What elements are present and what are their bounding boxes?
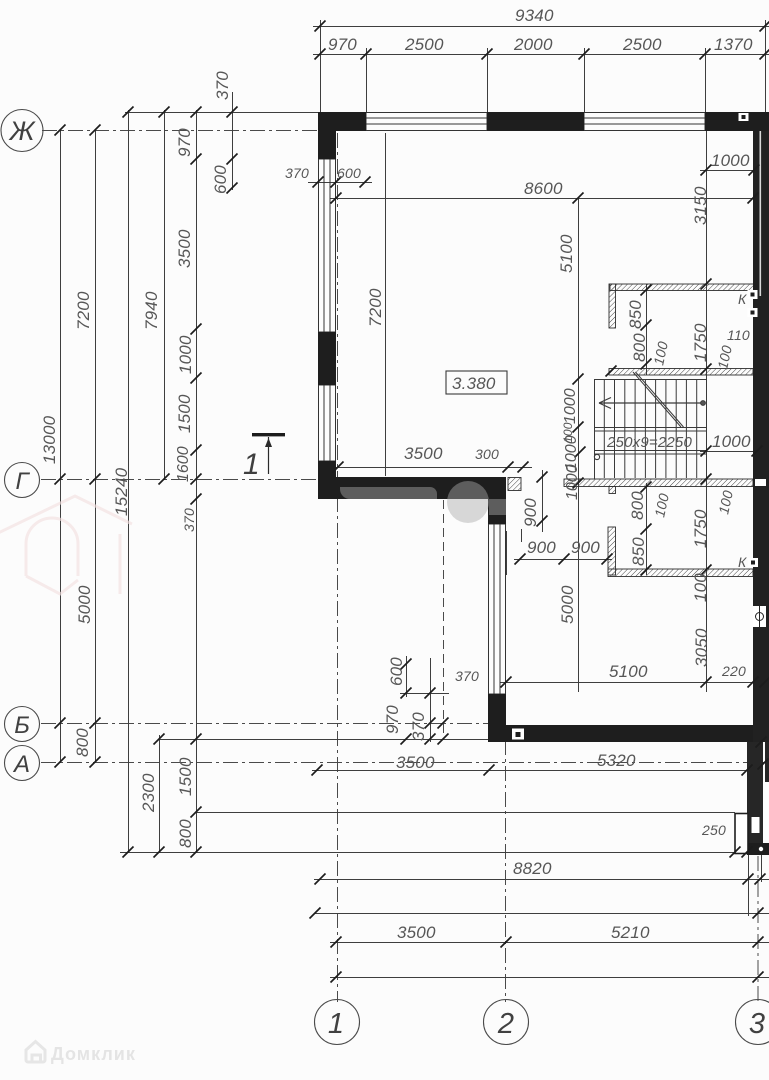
- dim line 900 vertical at door: [542, 470, 544, 532]
- lower-left jog dims: [406, 656, 408, 697]
- svg-text:2500: 2500: [404, 35, 444, 54]
- svg-text:1750: 1750: [691, 323, 710, 362]
- svg-text:5000: 5000: [558, 585, 577, 624]
- stair side edges: [594, 379, 596, 479]
- svg-text:250: 250: [701, 822, 726, 838]
- axis 1 circle: [315, 1000, 360, 1045]
- svg-text:900: 900: [527, 538, 556, 557]
- flight 2 double edge: [594, 450, 707, 452]
- svg-text:Домклик: Домклик: [51, 1044, 136, 1064]
- svg-text:2300: 2300: [139, 773, 158, 813]
- top dim row 9340: [313, 26, 769, 28]
- watermark house outline faint left (pink domclick logo): [0, 496, 132, 594]
- axis grid lines: [41, 131, 769, 1003]
- svg-text:800: 800: [630, 333, 649, 362]
- svg-text:370: 370: [285, 165, 309, 181]
- partition hatched P2: [609, 369, 753, 376]
- line y739: [159, 739, 488, 741]
- svg-text:1000: 1000: [564, 464, 581, 500]
- dim row 900/900: [514, 559, 612, 561]
- svg-text:5100: 5100: [557, 234, 576, 273]
- south wall: [488, 725, 753, 742]
- svg-text:5000: 5000: [75, 585, 94, 624]
- svg-text:К: К: [738, 291, 747, 307]
- dim row 3500/300 above Г wall: [330, 467, 532, 469]
- svg-text:8820: 8820: [513, 859, 552, 878]
- top wall corner block right: [705, 112, 769, 131]
- left vertical chain x232 370/600: [232, 92, 234, 190]
- svg-text:3050: 3050: [692, 628, 711, 667]
- svg-text:1600: 1600: [175, 446, 192, 482]
- svg-text:2500: 2500: [622, 35, 662, 54]
- axis Б horizontal: [41, 723, 492, 725]
- extension x706 top right: [706, 131, 708, 292]
- left vertical chain x196 subdims: [196, 110, 198, 852]
- svg-text:370: 370: [181, 508, 197, 532]
- svg-text:1: 1: [243, 448, 260, 481]
- dim row 5100/220: [500, 682, 769, 684]
- axis А circle: [5, 746, 40, 781]
- window top 1 (2500): [366, 113, 487, 131]
- svg-text:3500: 3500: [175, 229, 194, 268]
- left chain x159 2300: [159, 735, 161, 852]
- svg-text:100: 100: [691, 573, 710, 602]
- vertical dim line 7200 in room: [385, 133, 387, 476]
- svg-text:3.380: 3.380: [452, 374, 496, 393]
- svg-text:1000: 1000: [562, 388, 579, 424]
- svg-text:1000: 1000: [712, 432, 751, 451]
- dim row 370/600 under corner: [308, 182, 372, 184]
- left vertical chain x60 13000: [60, 130, 62, 762]
- small white socket on top wall: [739, 113, 749, 121]
- axis Б circle: [5, 707, 40, 742]
- west wall leg under corner: [318, 112, 336, 159]
- svg-text:3150: 3150: [691, 186, 710, 225]
- svg-text:3: 3: [749, 1008, 765, 1040]
- svg-text:Б: Б: [14, 712, 30, 739]
- west wall pier 1000: [318, 332, 336, 385]
- axis 1 vertical: [337, 133, 339, 1002]
- axis2 wall step block: [488, 499, 506, 524]
- svg-text:300: 300: [475, 446, 499, 462]
- svg-text:1370: 1370: [714, 35, 753, 54]
- partition hatched P4 lower: [608, 527, 753, 577]
- dim row 1000 top right: [700, 170, 762, 172]
- flight 2 start circle: [594, 454, 599, 459]
- axis2 wall lower block: [488, 694, 506, 726]
- svg-text:370: 370: [409, 712, 428, 741]
- svg-text:970: 970: [383, 705, 402, 734]
- axis 2 vertical: [505, 480, 507, 1002]
- left vertical chain x95 7200/5000/800: [95, 130, 97, 762]
- svg-text:3500: 3500: [396, 753, 435, 772]
- Г axis wall bar: [318, 477, 506, 499]
- axis Ж circle: [1, 110, 43, 152]
- svg-text:К: К: [738, 554, 747, 570]
- landing double edge: [594, 427, 707, 429]
- svg-text:7200: 7200: [366, 288, 385, 327]
- dim row 8600: [330, 198, 760, 200]
- east wall white marks: [748, 290, 758, 299]
- dim row y812: [195, 812, 735, 814]
- svg-text:250х9=2250: 250х9=2250: [606, 434, 692, 451]
- svg-text:800: 800: [176, 819, 195, 848]
- svg-text:850: 850: [629, 537, 648, 566]
- svg-text:8600: 8600: [524, 179, 563, 198]
- dim row y852: [120, 852, 769, 854]
- axis 3 circle: [736, 1000, 769, 1045]
- top dim row 970-2500-2000-2500-1370: [313, 54, 769, 56]
- svg-text:2000: 2000: [513, 35, 553, 54]
- svg-text:15240: 15240: [112, 467, 131, 516]
- svg-text:600: 600: [387, 657, 406, 686]
- flight 1 treads: [603, 379, 605, 478]
- top wall middle block (2000): [487, 112, 584, 131]
- svg-text:Ж: Ж: [8, 116, 37, 146]
- dim row y977: [330, 977, 769, 979]
- Domclick logo bottom left: [26, 1042, 136, 1065]
- svg-text:А: А: [12, 751, 30, 778]
- east wall vent symbol: [753, 606, 766, 627]
- left vertical chain x164 7940: [164, 110, 166, 480]
- chimney white notch: [752, 817, 760, 833]
- axis 3 vertical: [757, 856, 759, 1002]
- chimney foot: [747, 843, 769, 855]
- window axis2 wall (3500): [489, 524, 506, 694]
- level mark 3.380 box: [446, 371, 507, 394]
- svg-text:800: 800: [628, 491, 647, 520]
- top extension verticals: [320, 20, 322, 112]
- window west A (3500): [319, 159, 336, 332]
- axis А horizontal: [41, 762, 769, 764]
- svg-text:970: 970: [175, 128, 194, 157]
- svg-text:1500: 1500: [176, 757, 195, 796]
- top wall corner block left: [318, 112, 366, 131]
- partition hatched P3 below stair: [564, 479, 753, 494]
- axis Г horizontal: [41, 479, 320, 481]
- dim row y913: [314, 913, 769, 915]
- svg-text:1000: 1000: [176, 335, 195, 374]
- window west B (1500): [319, 385, 336, 461]
- vertical line x707 (3150/1750/3050 chain): [706, 292, 708, 692]
- hatched pier 300 at Г door: [508, 478, 521, 491]
- dim chain x646 lower partition: [646, 483, 648, 575]
- svg-text:800: 800: [73, 728, 92, 757]
- svg-text:Г: Г: [15, 468, 30, 495]
- partition hatched P1 top of stair: [609, 284, 754, 328]
- dim row 1000 stair landing: [700, 451, 765, 453]
- svg-text:110: 110: [727, 327, 750, 343]
- chimney column below south wall: [747, 742, 763, 846]
- svg-text:850: 850: [626, 300, 645, 329]
- svg-text:9340: 9340: [515, 6, 554, 25]
- section mark 1 with arrow: [243, 433, 285, 481]
- svg-text:900: 900: [571, 538, 600, 557]
- stair direction arrow: [599, 398, 703, 409]
- dim row 8820 y879: [314, 879, 769, 881]
- small white socket on south wall: [512, 729, 524, 740]
- svg-text:7940: 7940: [142, 291, 161, 330]
- left vertical chain x128 15240: [128, 110, 130, 852]
- top wall face extension to left chains: [125, 112, 318, 114]
- svg-text:2: 2: [497, 1008, 514, 1040]
- dim row 3500/5210 y942: [330, 942, 769, 944]
- dim row 3500/5320 y770: [312, 770, 752, 772]
- chimney extension lines: [748, 855, 750, 916]
- svg-text:5210: 5210: [611, 923, 650, 942]
- chimney white duct box: [735, 814, 748, 854]
- east wall: [753, 131, 769, 742]
- svg-text:1000: 1000: [711, 151, 750, 170]
- svg-text:1: 1: [328, 1008, 344, 1040]
- svg-text:600: 600: [337, 165, 361, 181]
- axis 2 circle: [484, 1000, 529, 1045]
- svg-text:970: 970: [328, 35, 357, 54]
- svg-text:900: 900: [521, 498, 540, 527]
- dim chain x646 upper partition: [646, 284, 648, 375]
- svg-text:5320: 5320: [597, 751, 636, 770]
- axis Ж horizontal: [42, 130, 769, 132]
- stair well: [594, 372, 707, 479]
- svg-text:370: 370: [213, 71, 232, 100]
- svg-text:370: 370: [455, 668, 479, 684]
- dashed opening line in lower-left room: [443, 500, 445, 736]
- svg-text:600: 600: [211, 165, 230, 194]
- diagonal break line double: [633, 372, 681, 427]
- svg-text:3500: 3500: [404, 444, 443, 463]
- svg-text:13000: 13000: [40, 415, 59, 464]
- svg-text:5100: 5100: [609, 662, 648, 681]
- window top 2 (2500): [584, 113, 705, 131]
- watermark blobs over Г wall: [340, 481, 506, 523]
- svg-text:3500: 3500: [397, 923, 436, 942]
- dimension texts rotated (reading bottom-up): [40, 71, 736, 848]
- west wall pier at Г: [318, 461, 336, 499]
- svg-text:7200: 7200: [74, 291, 93, 330]
- svg-text:1750: 1750: [691, 509, 710, 548]
- axis Г circle: [5, 463, 40, 498]
- svg-text:1500: 1500: [175, 394, 194, 433]
- svg-text:220: 220: [721, 663, 746, 679]
- flight 1 top edge: [594, 379, 707, 381]
- vertical line x578 (5100 / stair chain / 5000): [578, 198, 580, 692]
